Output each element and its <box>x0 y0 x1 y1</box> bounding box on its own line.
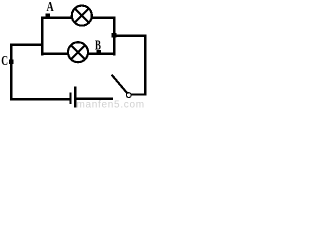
node C dot <box>9 60 13 64</box>
battery negative plate (short, thick) <box>69 93 71 105</box>
wire: horizontal from left riser to left bus <box>10 44 43 47</box>
svg-text:A: A <box>47 0 55 15</box>
junction dot on right bus <box>112 33 117 38</box>
wire: bottom from battery to switch left contact <box>76 97 113 100</box>
wire: right edge vertical <box>144 35 147 96</box>
wire: bottom branch right segment <box>88 53 115 56</box>
node A dot <box>45 14 50 19</box>
svg-text:manfen5.com: manfen5.com <box>77 99 145 109</box>
wire: left vertical with bottom-left corner <box>11 44 70 99</box>
svg-text:C: C <box>1 53 8 68</box>
battery positive plate (long, thin) <box>74 86 76 107</box>
wire: tee from right bus to right edge <box>113 35 146 38</box>
switch S lever (open) <box>112 75 128 94</box>
wire: top branch left segment <box>41 16 72 19</box>
svg-text:B: B <box>95 39 101 54</box>
lamp L2 (bottom) <box>68 42 88 62</box>
wire: top branch right segment <box>92 16 116 19</box>
lamp L1 (top) <box>72 6 92 26</box>
wire: switch right lead <box>131 93 146 95</box>
wire: right bus vertical <box>113 17 116 56</box>
switch S pivot circle <box>126 93 131 98</box>
wire: bottom branch left segment <box>41 53 68 56</box>
wire: left bus vertical <box>41 17 44 56</box>
node B dot <box>96 50 101 54</box>
